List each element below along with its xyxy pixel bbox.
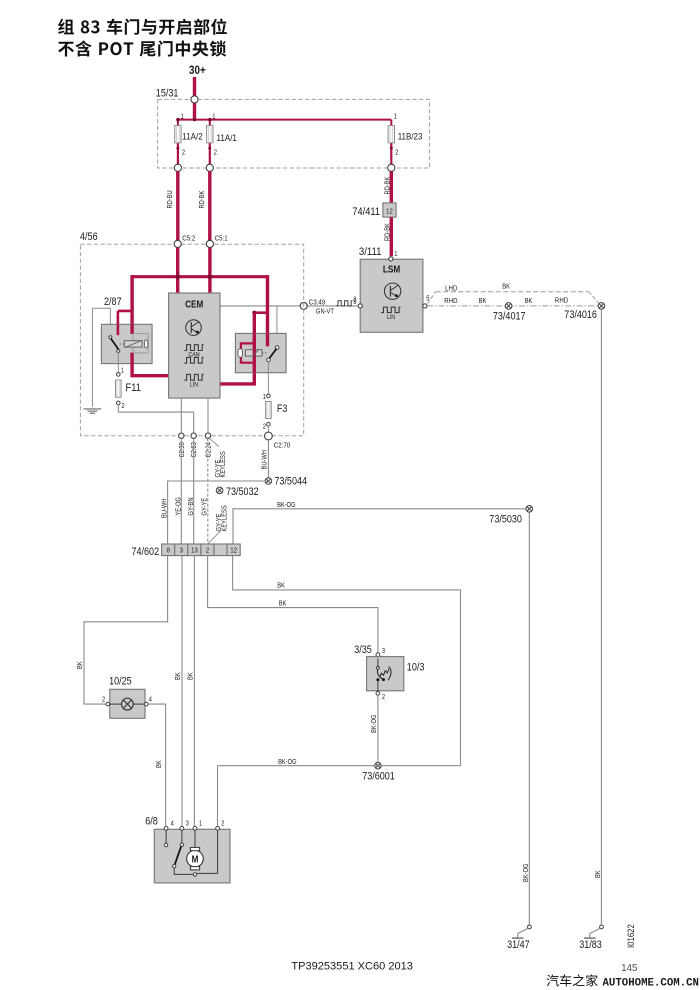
svg-text:RHD: RHD <box>444 296 458 305</box>
svg-text:BK: BK <box>156 760 163 768</box>
svg-text:BK: BK <box>279 600 287 607</box>
svg-text:4: 4 <box>171 820 174 827</box>
svg-text:74/602: 74/602 <box>132 546 160 558</box>
svg-text:2: 2 <box>221 820 224 827</box>
svg-text:KEYLESS: KEYLESS <box>221 505 228 531</box>
svg-text:C2:63: C2:63 <box>191 442 198 457</box>
svg-text:BK: BK <box>187 672 194 680</box>
svg-text:AUTOHOME.COM.CN: AUTOHOME.COM.CN <box>603 978 700 990</box>
svg-text:1: 1 <box>212 113 215 120</box>
svg-text:8: 8 <box>167 546 170 555</box>
svg-text:74/411: 74/411 <box>352 206 380 218</box>
svg-text:RD-BK: RD-BK <box>199 190 206 208</box>
svg-text:1: 1 <box>121 367 124 374</box>
svg-text:73/4017: 73/4017 <box>493 311 526 323</box>
svg-text:31/47: 31/47 <box>507 939 530 951</box>
svg-text:73/5032: 73/5032 <box>226 486 259 498</box>
svg-text:3/35: 3/35 <box>354 644 372 656</box>
svg-text:C2:24: C2:24 <box>206 442 213 457</box>
svg-text:13: 13 <box>191 546 198 555</box>
svg-text:2: 2 <box>382 694 385 701</box>
svg-text:C5:1: C5:1 <box>215 234 228 243</box>
svg-text:GY-YE: GY-YE <box>201 497 208 515</box>
svg-text:BK: BK <box>479 298 487 305</box>
svg-text:RD-BU: RD-BU <box>167 190 174 208</box>
svg-text:GY-BN: GY-BN <box>188 497 195 515</box>
svg-text:30+: 30+ <box>189 63 206 77</box>
svg-text:LHD: LHD <box>445 283 458 292</box>
svg-text:RD-BK: RD-BK <box>384 176 391 194</box>
svg-text:BK-OG: BK-OG <box>523 864 530 883</box>
svg-text:73/6001: 73/6001 <box>362 771 395 783</box>
svg-text:BK-OG: BK-OG <box>277 502 296 509</box>
svg-text:RHD: RHD <box>555 295 569 304</box>
svg-text:4/56: 4/56 <box>80 231 98 243</box>
svg-text:YE-OG: YE-OG <box>176 497 183 516</box>
svg-text:BK-OG: BK-OG <box>278 759 297 766</box>
svg-text:BU-WH: BU-WH <box>262 450 269 469</box>
svg-text:31/83: 31/83 <box>579 939 602 951</box>
svg-text:CEM: CEM <box>185 300 203 311</box>
svg-text:F3: F3 <box>277 403 288 415</box>
svg-text:BK: BK <box>525 298 533 305</box>
svg-text:2: 2 <box>182 150 185 157</box>
svg-text:1: 1 <box>181 113 184 120</box>
svg-text:C2:30: C2:30 <box>179 442 186 457</box>
svg-text:3: 3 <box>180 546 183 555</box>
svg-text:11B/23: 11B/23 <box>398 132 423 143</box>
svg-text:2: 2 <box>395 150 398 157</box>
svg-text:GN-VT: GN-VT <box>316 309 334 316</box>
svg-text:2: 2 <box>206 546 209 555</box>
svg-text:I01622: I01622 <box>626 924 637 948</box>
svg-text:3/111: 3/111 <box>359 246 382 258</box>
svg-text:12: 12 <box>386 206 393 215</box>
svg-text:1: 1 <box>394 251 397 258</box>
svg-text:BK: BK <box>502 284 510 291</box>
svg-text:BK: BK <box>77 661 84 669</box>
svg-text:4: 4 <box>149 697 152 704</box>
svg-text:TP39253551 XC60 2013: TP39253551 XC60 2013 <box>291 961 413 973</box>
svg-text:12: 12 <box>230 546 237 555</box>
svg-text:2: 2 <box>122 403 125 410</box>
svg-text:C5:2: C5:2 <box>182 234 195 243</box>
svg-text:LIN: LIN <box>190 382 199 389</box>
svg-text:2: 2 <box>263 423 266 430</box>
svg-text:73/5044: 73/5044 <box>274 476 307 488</box>
svg-text:10/3: 10/3 <box>407 662 425 674</box>
svg-text:3: 3 <box>382 648 385 655</box>
svg-text:2: 2 <box>102 696 105 703</box>
svg-text:6/8: 6/8 <box>145 816 158 828</box>
svg-text:M: M <box>192 855 199 866</box>
svg-text:1: 1 <box>394 113 397 120</box>
svg-text:BK: BK <box>595 870 602 878</box>
svg-text:F11: F11 <box>126 382 142 394</box>
svg-text:1: 1 <box>199 820 202 827</box>
svg-text:LSM: LSM <box>383 265 400 276</box>
svg-text:3: 3 <box>186 820 189 827</box>
svg-text:C2:70: C2:70 <box>274 440 290 449</box>
svg-text:73/4016: 73/4016 <box>564 309 597 321</box>
svg-text:KEYLESS: KEYLESS <box>220 451 227 477</box>
svg-text:C3:49: C3:49 <box>309 298 325 307</box>
svg-text:73/5030: 73/5030 <box>489 513 522 525</box>
svg-text:15/31: 15/31 <box>156 88 179 100</box>
svg-text:1: 1 <box>263 394 266 401</box>
svg-text:BK: BK <box>175 672 182 680</box>
svg-text:145: 145 <box>621 962 637 974</box>
svg-text:2: 2 <box>214 150 217 157</box>
svg-text:11A/1: 11A/1 <box>217 133 237 144</box>
svg-text:10/25: 10/25 <box>109 676 132 688</box>
svg-text:BK-OG: BK-OG <box>371 715 378 734</box>
svg-text:BU-WH: BU-WH <box>161 499 168 518</box>
svg-text:LIN: LIN <box>387 314 396 321</box>
svg-text:11A/2: 11A/2 <box>182 132 202 143</box>
svg-text:BK: BK <box>277 583 285 590</box>
svg-text:8: 8 <box>354 299 357 306</box>
svg-text:2/87: 2/87 <box>104 296 122 308</box>
